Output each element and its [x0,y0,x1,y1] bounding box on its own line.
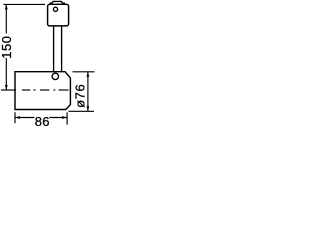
dimension ø76: arrowhead up [87,72,90,77]
hole in cap [53,7,57,11]
top tab of cap [50,1,64,4]
svg-text:86: 86 [35,114,50,129]
dimension 150: top extension line [3,3,45,5]
dimension 86: arrowhead left [15,116,20,119]
dimension 150: dimension line upper segment [5,4,7,33]
hole in body at stem base [52,73,58,79]
dimension 86: dimension line left segment [15,117,35,119]
dimension 86: arrowhead right [62,116,67,119]
dimension 150: arrowhead up [5,4,8,9]
dimension 150: dimension line lower segment [5,58,7,90]
svg-text:150: 150 [0,35,14,58]
centerline (dash-dot) through body [1,89,16,91]
stem left line [53,26,55,72]
cap (connector head) [48,4,69,26]
svg-text:ø76: ø76 [72,84,87,108]
dimension ø76: arrowhead down [87,106,90,111]
dimension ø76: dimension line [87,72,89,112]
dimension 86: dimension line right segment [49,117,67,119]
dimension ø76: bottom extension line [69,110,95,112]
dimension 86: right extension line [66,112,68,124]
dimension ø76: top extension line [73,71,95,73]
dimension 150: arrowhead down [5,85,8,90]
body outline with chamfered right corners [15,72,70,110]
stem right line [61,26,63,72]
dimension 86: left extension line [14,112,16,123]
